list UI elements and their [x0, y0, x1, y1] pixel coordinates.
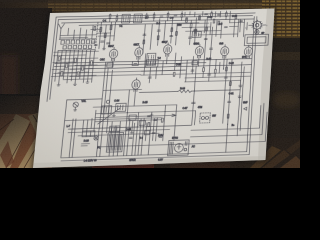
top right resistor R6 [199, 16, 201, 20]
svg-text:T-4: T-4 [139, 138, 143, 140]
svg-text:R-9: R-9 [219, 24, 223, 26]
tube V1 6SA7 [109, 47, 119, 61]
wire coil row bottom [58, 49, 95, 52]
border frame inner [50, 15, 253, 99]
mid band resistors [136, 26, 235, 121]
lower bus 3 [96, 111, 196, 114]
svg-text:6K6G: 6K6G [193, 44, 199, 46]
right woven area [262, 0, 300, 40]
tube V2 6SK7 [134, 46, 143, 60]
tube V3 6SQ7 [163, 43, 172, 57]
coupling box 2 [115, 103, 126, 111]
top band component row [109, 10, 228, 22]
arrow symbol right [244, 107, 247, 110]
pilot lamp [94, 136, 99, 140]
electrolytic C6 [238, 96, 242, 97]
svg-text:8MF: 8MF [243, 102, 248, 104]
coil L1 wires [60, 35, 96, 38]
ground G1 [102, 47, 105, 50]
right mid detail wires [140, 51, 252, 83]
svg-text:AC: AC [192, 145, 196, 148]
IF transformer T3 top [134, 14, 143, 23]
wire vertical drops input [67, 28, 86, 40]
svg-text:T-1: T-1 [119, 26, 123, 28]
bottom bus C [78, 133, 159, 136]
ground G7 [150, 113, 153, 115]
svg-text:12: 12 [245, 28, 248, 30]
volume pot P1 [72, 102, 78, 111]
svg-text:R-14: R-14 [180, 88, 186, 90]
outer corner line 2 [98, 112, 268, 147]
svg-text:6SK7: 6SK7 [133, 44, 140, 46]
resistor R8 [66, 63, 68, 67]
svg-text:C-7: C-7 [145, 18, 150, 20]
svg-text:6.3V: 6.3V [158, 159, 163, 161]
electrolytic C5 [239, 80, 243, 86]
mid band small caps [137, 28, 236, 105]
avc wire [139, 90, 240, 93]
bottom double bus [61, 152, 249, 161]
bottom bus A [68, 125, 191, 129]
ground G4 [86, 80, 89, 83]
left block horizontals [51, 51, 99, 80]
capacitor C4 [192, 102, 196, 103]
svg-text:R-15: R-15 [142, 102, 148, 104]
extra corner line 3 [191, 105, 261, 130]
svg-text:5Y4G: 5Y4G [172, 138, 178, 140]
top right capacitor C3 [194, 29, 198, 30]
wire coil row top [59, 38, 96, 41]
right top detail wires [181, 10, 248, 38]
mixer grid wires [99, 22, 116, 49]
resistor R2 [104, 33, 106, 37]
svg-text:C-16: C-16 [232, 16, 238, 18]
resistor R11 [61, 71, 63, 76]
junction circle [106, 100, 110, 103]
mid bus 2 [54, 63, 206, 67]
ground G5 [112, 114, 115, 117]
svg-text:B+: B+ [231, 125, 235, 127]
paper right edge shading [258, 9, 275, 161]
resistor R3 [110, 25, 112, 29]
bottom verticals [61, 97, 178, 158]
svg-text:R-12: R-12 [206, 59, 212, 61]
resistor R12 [77, 72, 79, 77]
svg-text:C-20: C-20 [176, 64, 182, 66]
output transformer box [146, 60, 159, 68]
ground G3 [73, 83, 76, 86]
resistor R7 [58, 57, 60, 61]
IF transformer T1 top [121, 14, 130, 23]
power transformer T4 [106, 132, 123, 152]
nested box outer top right [244, 34, 268, 45]
svg-text:T-2: T-2 [157, 58, 161, 60]
resistor R13 [90, 61, 92, 65]
svg-text:6SQ7: 6SQ7 [162, 42, 169, 44]
svg-text:25M: 25M [177, 25, 182, 27]
lower bus 2 [93, 105, 177, 107]
bottom right woodgrain [245, 138, 300, 168]
lower bus 1 [67, 98, 102, 101]
svg-text:6SA7: 6SA7 [108, 45, 115, 48]
svg-text:C-27: C-27 [182, 108, 188, 110]
right dark area [258, 60, 300, 168]
svg-text:L-9 115V 60: L-9 115V 60 [84, 160, 98, 163]
background base [0, 0, 300, 168]
ground G2 [57, 83, 60, 86]
band switch row B [63, 45, 92, 49]
grid cap boxes below tubes [107, 60, 198, 67]
maroon under paper [92, 160, 154, 168]
capacitor C2 [106, 43, 110, 44]
resistor R10 [82, 66, 84, 70]
top strip above paper [0, 0, 300, 30]
tube V5 6V6 [220, 44, 229, 58]
right mid vertical 1 [192, 66, 196, 125]
lower bus 4 [65, 118, 162, 121]
det wires [99, 61, 144, 128]
bottom small parts [144, 131, 149, 135]
top right wires [181, 15, 241, 39]
wire top bus 2 [79, 23, 199, 26]
filter choke [109, 126, 120, 132]
svg-text:3: 3 [266, 25, 268, 27]
resistor R9 [74, 58, 76, 62]
IF transformer T2 [146, 53, 156, 65]
svg-text:6V6: 6V6 [219, 43, 224, 45]
svg-text:R-20: R-20 [83, 141, 89, 143]
mid bus 5 [70, 75, 141, 77]
mid bus 4 [54, 70, 186, 73]
paper bottom edge shading [33, 156, 266, 168]
right bus vertical 2 [240, 67, 244, 131]
ground G6 [130, 131, 133, 134]
svg-text:47M: 47M [198, 107, 203, 109]
candohm resistor [82, 131, 95, 137]
resistor R1 [100, 27, 102, 31]
right mid vertical 2 [195, 111, 196, 125]
resistor R14 zigzag [178, 90, 192, 93]
bottom mid cluster [82, 108, 165, 140]
junction dots scattered [101, 28, 234, 132]
left dark side [0, 8, 52, 108]
coupling box 1 [101, 106, 112, 114]
bottom bus B [68, 129, 170, 132]
svg-text:C-24: C-24 [114, 100, 120, 102]
tube V6 output [244, 45, 253, 59]
lower bus 5 arrow [95, 114, 176, 119]
svg-text:C-9: C-9 [170, 18, 175, 20]
speaker top view [245, 20, 269, 35]
mid band verticals [134, 17, 239, 156]
tone choke box [192, 31, 201, 37]
right bus vertical 1 [237, 62, 242, 136]
left block verticals [55, 50, 95, 84]
svg-text:SPKR: SPKR [129, 160, 136, 162]
shield dashed line [95, 22, 98, 51]
svg-text:C-31: C-31 [229, 93, 235, 95]
paper drop shadow [31, 8, 276, 170]
top right resistor R4 [185, 18, 187, 22]
dashed block bottom right [200, 113, 211, 123]
junction dots left block [55, 54, 95, 77]
svg-text:SW: SW [212, 116, 217, 118]
band switch row A [61, 40, 95, 45]
antenna A1 [57, 24, 65, 40]
bottom ladder verticals [109, 118, 154, 156]
svg-text:OSC: OSC [100, 59, 106, 61]
svg-text:C-35: C-35 [126, 129, 132, 131]
top right resistor R5 [190, 24, 192, 28]
paper sheet [33, 9, 275, 169]
right frame double line [245, 16, 257, 154]
speaker field coil label [81, 144, 89, 146]
svg-text:115V: 115V [158, 135, 164, 137]
carpet bottom left [0, 94, 52, 168]
svg-text:L-7: L-7 [66, 126, 70, 128]
tube stub wires [112, 52, 249, 72]
mid bus 3 [70, 65, 251, 70]
tube V4 6K6 [195, 44, 204, 58]
mid bus 1 [55, 59, 252, 64]
svg-text:C-22: C-22 [229, 63, 235, 65]
tube V7 detector [131, 78, 141, 92]
border frame outer [47, 13, 255, 102]
svg-text:C-14: C-14 [207, 17, 213, 19]
svg-text:VOL: VOL [81, 101, 87, 103]
wire top bus [62, 19, 255, 23]
nested box inner top right [247, 37, 266, 44]
mixer cluster extra [89, 25, 115, 46]
capacitor C1 [101, 41, 105, 42]
lower bus 6 [95, 120, 162, 122]
diagonal wire [98, 108, 120, 124]
outer corner line 1 [190, 103, 264, 137]
rectifier box [168, 140, 190, 156]
